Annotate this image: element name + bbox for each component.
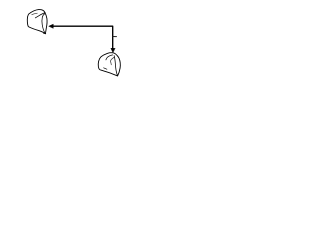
pad B upper fold line bbox=[106, 55, 113, 60]
tick on vertical wire bbox=[113, 36, 117, 38]
pad A tip junction bbox=[43, 32, 45, 35]
pad B outer silhouette bbox=[98, 53, 120, 76]
pad B lower fold line bbox=[110, 57, 114, 65]
leader wire (horizontal + vertical) bbox=[53, 26, 113, 48]
pad B right fold line bbox=[114, 56, 118, 76]
leader arrowhead down bbox=[111, 48, 115, 52]
pad A right fold line bbox=[42, 14, 45, 34]
pad A upper fold line bbox=[35, 13, 45, 18]
leader arrowhead left bbox=[49, 24, 54, 28]
pad A top-left rim line bbox=[32, 13, 38, 15]
pad B face bottom edge bbox=[104, 68, 107, 69]
pad A outer silhouette bbox=[27, 10, 47, 34]
